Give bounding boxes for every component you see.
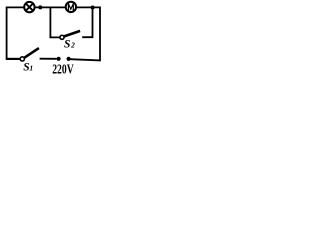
svg-text:2: 2 [70,41,75,50]
svg-text:S: S [64,38,70,50]
node B junction dot [91,6,95,10]
svg-text:220V: 220V [52,63,73,75]
wire bottom-left (corner to S1 pivot) [6,58,20,60]
lamp EL1 cross [26,3,33,10]
wire S1 right contact [40,58,57,60]
switch S1 blade [24,48,39,58]
terminal dot left [57,57,61,61]
switch S1 pivot [20,57,24,61]
svg-text:1: 1 [29,63,33,72]
terminal dot right [67,57,71,61]
lamp EL1 circle [24,2,34,12]
node A junction dot [38,5,42,9]
wire top middle (lamp to motor) [35,6,66,8]
wire left-vertical and top-left segment [7,7,24,60]
switch S2 blade [64,31,80,37]
motor M circle [66,2,76,12]
wire S2-branch right contact and vertical [82,7,92,37]
wire S2-branch left vertical [50,7,60,37]
motor M letter [68,3,74,9]
switch S2 pivot [60,35,64,39]
wire top-right, right-vertical and bottom-right segment [70,7,100,60]
